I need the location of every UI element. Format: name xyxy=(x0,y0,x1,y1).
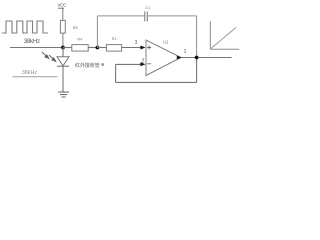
feedback loop left vertical xyxy=(115,64,117,82)
wire R4 to node B xyxy=(88,47,97,49)
svg-text:R1: R1 xyxy=(112,37,117,41)
svg-text:R5: R5 xyxy=(73,26,78,30)
output wire xyxy=(181,57,232,59)
feedback top wire right segment xyxy=(147,15,196,17)
wire R5 to node A xyxy=(62,33,64,47)
output ramp diagonal xyxy=(211,28,236,49)
photodiode D1 triangle xyxy=(57,57,69,66)
resistor R5 xyxy=(60,20,65,33)
svg-text:R4: R4 xyxy=(77,38,82,42)
feedback top wire left segment xyxy=(97,15,144,17)
wire photodiode to ground xyxy=(62,66,64,92)
svg-text:3: 3 xyxy=(135,40,138,46)
wire input to node A xyxy=(10,47,63,49)
arrowhead into - input xyxy=(140,62,145,66)
output graph axes vertical xyxy=(209,21,211,49)
svg-text:C1: C1 xyxy=(145,6,150,10)
wire - input from loop xyxy=(116,63,141,65)
feedback wire down to output node xyxy=(196,16,198,58)
svg-text:红外接收管: 红外接收管 xyxy=(75,62,100,69)
underline below incident light label xyxy=(13,76,58,78)
op-amp U1 triangle xyxy=(146,40,181,76)
incident light arrow 1 xyxy=(42,52,49,58)
resistor R4 xyxy=(72,45,88,52)
svg-text:VCC: VCC xyxy=(58,2,68,7)
wire node A to R4 xyxy=(63,47,72,49)
wire R1 to op-amp + input xyxy=(122,47,142,49)
capacitor C1 xyxy=(144,11,146,21)
op-amp output arrowhead xyxy=(177,56,182,60)
node B junction dot xyxy=(96,46,100,50)
incident light arrow 2 xyxy=(49,55,56,61)
svg-text:38kHz: 38kHz xyxy=(22,70,38,76)
feedback loop right vertical xyxy=(196,58,198,83)
square wave source waveform xyxy=(2,21,48,33)
ground symbol xyxy=(58,92,69,97)
feedback loop bottom wire xyxy=(116,81,197,83)
wire node A down to photodiode xyxy=(62,48,64,57)
op-amp + sign xyxy=(147,46,151,50)
photodiode cathode bar xyxy=(57,65,69,67)
svg-text:1: 1 xyxy=(184,49,187,55)
arrowhead into + input xyxy=(140,46,145,50)
op-amp - sign xyxy=(147,63,151,65)
wire VCC to R5 xyxy=(62,8,64,20)
wire node B to R1 xyxy=(97,47,106,49)
resistor R1 xyxy=(106,45,121,52)
designator mark after label xyxy=(102,63,104,66)
svg-text:U1: U1 xyxy=(163,39,169,44)
svg-text:38kHz: 38kHz xyxy=(24,38,40,45)
node A junction dot xyxy=(61,46,65,50)
output node junction dot xyxy=(195,56,199,60)
output graph axes horizontal xyxy=(210,48,239,50)
feedback wire node B up xyxy=(96,16,98,48)
